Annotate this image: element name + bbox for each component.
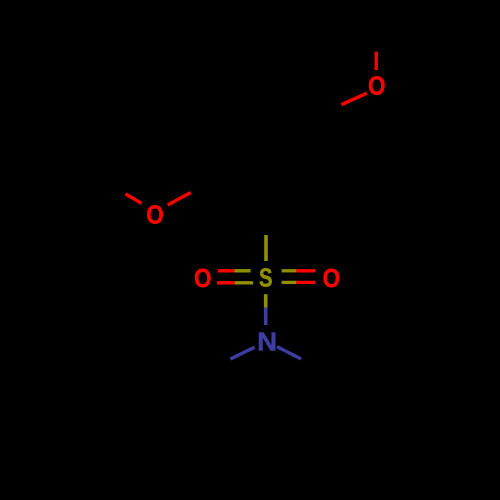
wire ring half-bond to left methoxy O (carbon half, invisible) [191, 180, 214, 193]
wire Ce-N [278, 348, 325, 370]
svg-text:O: O [323, 263, 341, 293]
svg-text:O: O [146, 199, 164, 229]
wire C1-C2 [214, 179, 266, 209]
bond C1-S sulfur half (vertical olive above S) [264, 235, 268, 261]
svg-text:S: S [259, 263, 273, 293]
wire C5-C6 [316, 119, 319, 179]
bond S=O right, top line (sulfur half) [282, 269, 297, 272]
wire Cc-Cd [266, 432, 325, 464]
wire N-Ca [206, 348, 254, 370]
wire benzene inner double bond C2-C3 [219, 126, 222, 172]
bond S=O right, bottom line (red half) [296, 281, 315, 284]
wire Ca-Cb [204, 370, 207, 432]
wire C1-S half-bond (carbon half, invisible) [264, 209, 267, 235]
bond S=O right, top line (red half) [296, 269, 315, 272]
svg-text:O: O [368, 71, 386, 101]
bond O1-CH3 red half (left methoxy, up-left) [126, 194, 142, 203]
bond O2-CH3 red half (right methoxy, vertical up) [375, 52, 378, 70]
wire methyl half-bond of left methoxy (carbon half, invisible) [110, 185, 126, 194]
bond S=O left, bottom line (sulfur half) [235, 281, 254, 284]
bond S-N sulfur half (vertical olive below S) [264, 294, 268, 307]
wire C2-C3 [212, 119, 215, 179]
bond N-Ce nitrogen half (down-right blue) [277, 347, 301, 359]
piperidine ring (carbon bonds, near-invisible on black) [206, 348, 325, 464]
wire C4-C5 [266, 89, 318, 119]
bond N-Ca nitrogen half (down-left blue) [230, 347, 254, 359]
wire C3-C4 [214, 89, 266, 119]
wire Cd-Ce [323, 370, 326, 432]
bond S=O left, top line (red half) [218, 269, 235, 272]
wire C6-C1 [266, 179, 318, 209]
bond O2-C5 red half (right methoxy to ring, down-left) [341, 93, 366, 105]
svg-text:O: O [194, 263, 212, 293]
wire methyl half-bond of right methoxy (carbon half, invisible) [375, 33, 378, 51]
bond S=O left, top line (sulfur half) [235, 269, 251, 272]
wire benzene inner double bond C4-C5 [268, 97, 310, 121]
benzene ring (carbon bonds, near-invisible on black) [214, 89, 318, 209]
svg-text:N: N [257, 327, 277, 357]
bond S=O left, bottom line (red half) [217, 281, 235, 284]
wire Cb-Cc [206, 432, 266, 464]
bond O1-C2 red half (left methoxy to ring, up-right) [168, 193, 191, 206]
wire benzene inner double bond C6-C1 [269, 174, 311, 200]
bond S=O right, bottom line (sulfur half) [282, 281, 297, 284]
bond S-N nitrogen half (vertical blue) [264, 308, 268, 326]
wire ring half-bond to right methoxy O (carbon half, invisible) [316, 105, 341, 117]
